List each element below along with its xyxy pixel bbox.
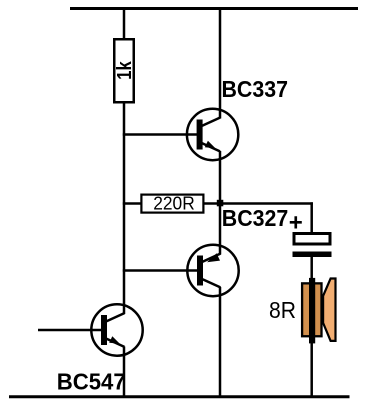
wire: Q3 base stub: [38, 329, 101, 332]
capacitor C1 negative plate: [293, 252, 332, 258]
wire: top supply rail: [70, 7, 358, 10]
wire: R2 right to output node: [205, 202, 221, 205]
wire: left bus to Q2 base: [123, 269, 197, 272]
transistor Q3 BC547 (NPN): [91, 304, 142, 355]
transistor Q2 BC327 (PNP): [187, 245, 238, 296]
transistor Q1 BC337 (NPN): [187, 109, 238, 160]
svg-text:BC337: BC337: [222, 76, 289, 102]
wire: bottom ground rail: [9, 395, 350, 398]
wire: rail to resistor R1 top: [123, 7, 126, 39]
svg-text:BC547: BC547: [57, 368, 126, 394]
node: output junction dot: [217, 200, 224, 207]
resistor R2 220R: [141, 195, 203, 213]
wire: Q2 collector down to bottom rail: [219, 287, 222, 397]
svg-text:1k: 1k: [114, 61, 136, 80]
wire: capacitor to speaker: [310, 257, 313, 280]
wire: Q1 emitter down to output node: [219, 151, 222, 204]
svg-text:220R: 220R: [153, 194, 195, 214]
wire: left bus to R2 left: [123, 202, 141, 205]
wire: speaker to bottom rail: [310, 342, 313, 397]
wire: output node to capacitor: [220, 202, 313, 205]
wire: output node down to Q2 emitter: [219, 204, 222, 255]
resistor R1 1k: [114, 39, 134, 102]
wire: Q3 emitter to bottom rail: [123, 347, 126, 398]
capacitor C1 positive plate: [294, 234, 330, 245]
wire: left bus to Q1 base: [123, 133, 197, 136]
svg-text:BC327: BC327: [222, 205, 288, 231]
svg-text:8R: 8R: [269, 297, 296, 323]
wire: top rail to Q1 collector: [219, 7, 222, 119]
wire: left bus (R1 bottom down to Q3 collector): [123, 103, 126, 314]
speaker LS1 8R: [302, 278, 335, 344]
